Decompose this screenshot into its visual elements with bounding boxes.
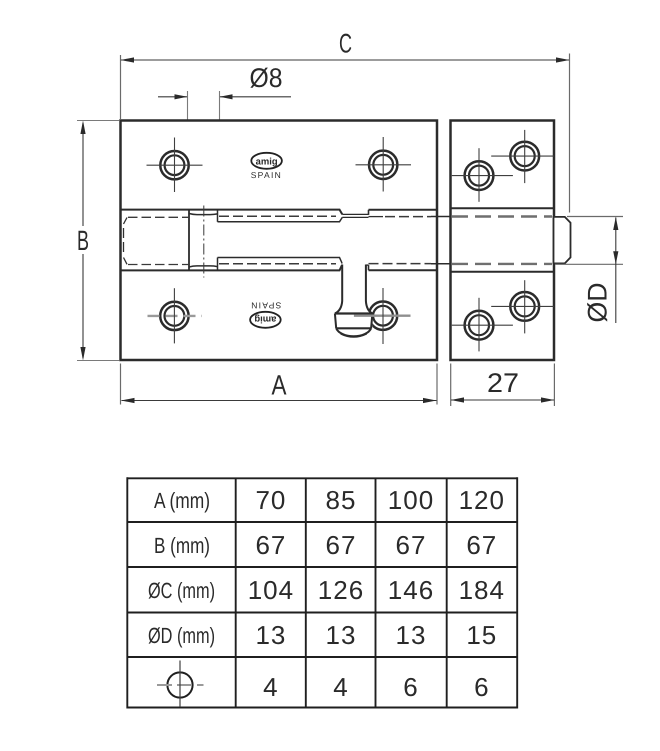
svg-text:120: 120 (459, 485, 505, 515)
svg-text:ØD (mm): ØD (mm) (148, 623, 215, 648)
right keeper plate (451, 121, 555, 361)
table column lines (235, 478, 237, 707)
crosshair of hole behind knob (354, 315, 411, 317)
svg-text:A: A (272, 370, 287, 401)
dimension 27 extension lines (450, 364, 452, 407)
rail inner line bottom (218, 258, 343, 264)
bolt rod crossing the gap between plates (431, 216, 451, 218)
hidden bolt end in housing (dashed with chamfers) (128, 216, 189, 218)
neck top line (189, 214, 218, 215)
bolt rod section 2 hidden dashes (369, 216, 384, 218)
main plate fold line top (121, 210, 343, 215)
screw hole main bottom-right (behind knob) (369, 302, 397, 330)
svg-text:SPAIN: SPAIN (250, 301, 281, 311)
svg-text:15: 15 (466, 620, 497, 650)
svg-text:SPAIN: SPAIN (251, 170, 282, 180)
screw hole main top-left (147, 138, 203, 193)
svg-text:67: 67 (326, 530, 357, 560)
svg-text:70: 70 (255, 485, 286, 515)
svg-text:A (mm): A (mm) (154, 488, 210, 513)
dimension 27 line (451, 399, 554, 401)
knob stem and head (drawn over hole) (335, 265, 373, 314)
svg-text:13: 13 (396, 620, 427, 650)
table header labels (148, 488, 215, 648)
right plate fold lines (451, 207, 555, 209)
screw hole right plate top-right (491, 130, 554, 183)
hidden bolt in right plate (dashed) (452, 215, 552, 217)
dimension A line (122, 400, 437, 402)
dimension C extension line right (569, 54, 571, 213)
bolt tip protruding (554, 217, 571, 264)
screw hole main top-right (356, 137, 412, 192)
svg-text:67: 67 (466, 530, 497, 560)
hole symbol in last row (157, 661, 204, 708)
screw hole right plate bottom-left (452, 298, 513, 352)
svg-text:C: C (339, 29, 352, 59)
dimension B line (82, 123, 84, 358)
dimension ØD extension lines (567, 216, 623, 218)
main plate fold line bottom (121, 265, 438, 270)
bolt centre line (dash-dot) (203, 206, 205, 278)
table row lines (127, 521, 517, 523)
table outer border (127, 477, 517, 479)
table values (248, 485, 505, 702)
svg-text:ØC (mm): ØC (mm) (148, 578, 215, 603)
amig logo top + SPAIN (251, 153, 282, 180)
screw hole right plate bottom-right (491, 280, 554, 333)
rail left steps (217, 210, 219, 222)
dimension A extension lines (120, 364, 122, 405)
svg-text:B: B (77, 225, 89, 256)
main plate (121, 121, 438, 361)
svg-text:13: 13 (255, 620, 286, 650)
svg-text:amig: amig (256, 156, 278, 167)
svg-text:4: 4 (263, 672, 278, 702)
svg-text:100: 100 (388, 485, 434, 515)
svg-text:85: 85 (326, 485, 357, 515)
svg-text:67: 67 (396, 530, 427, 560)
dimension C extension line left (120, 55, 122, 119)
svg-text:184: 184 (459, 575, 505, 605)
svg-text:4: 4 (333, 672, 348, 702)
svg-text:67: 67 (255, 530, 286, 560)
svg-text:6: 6 (474, 672, 489, 702)
svg-text:104: 104 (248, 575, 294, 605)
amig logo bottom (rotated 180) (250, 301, 281, 328)
dimension Ø8 line (158, 96, 187, 98)
svg-text:27: 27 (487, 368, 519, 398)
dimension ØD line (615, 218, 617, 324)
svg-text:146: 146 (388, 575, 434, 605)
svg-text:Ø8: Ø8 (250, 63, 283, 93)
knob outlines (335, 265, 373, 314)
hidden bolt edge dashed (under rails) (219, 215, 336, 217)
svg-text:amig: amig (254, 313, 276, 324)
svg-text:B (mm): B (mm) (154, 533, 210, 558)
neck bottom line (189, 266, 218, 267)
svg-text:126: 126 (318, 575, 364, 605)
dimension Ø8 extension lines (187, 91, 189, 211)
rail inner line top (218, 217, 343, 221)
svg-text:13: 13 (326, 620, 357, 650)
screw hole right plate top-left (452, 148, 513, 202)
label B (72, 226, 94, 254)
housing (left barrel guide) (188, 210, 190, 271)
screw hole main bottom-left (148, 288, 203, 343)
svg-text:ØD: ØD (583, 283, 613, 323)
dimension B extension ticks (77, 120, 119, 122)
dimension C line (121, 59, 569, 61)
svg-text:6: 6 (403, 672, 418, 702)
